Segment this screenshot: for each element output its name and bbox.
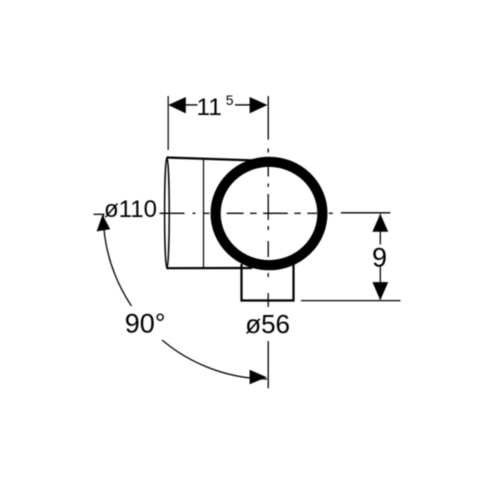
vertical centerline top solid part (11.5 dim extension) (267, 96, 269, 140)
90 degree arc: top arrow (97, 215, 111, 232)
socket mouth rim (flat ellipse) (165, 158, 170, 269)
horizontal centerline stub left of label (94, 213, 105, 215)
90 degree arc (103, 215, 267, 379)
svg-text:ø56: ø56 (245, 309, 290, 339)
label ø56 with white background over centerline (243, 308, 291, 336)
main ring ø110 opening (216, 162, 323, 265)
svg-text:ø110: ø110 (104, 196, 157, 223)
dimension 11.5: left arrow (168, 97, 186, 113)
90 degree arc: white gap for text (122, 306, 169, 340)
dimension 9: vertical line upper (379, 214, 381, 245)
svg-text:5: 5 (226, 92, 234, 108)
socket body top edge (167, 158, 257, 161)
socket body bottom edge (167, 267, 253, 269)
svg-text:11: 11 (197, 94, 222, 121)
socket depth line (203, 158, 205, 267)
horizontal centerline dash-dot (160, 212, 333, 214)
dimension 11.5: left extension line (167, 96, 169, 150)
dimension 11.5: line segment right (235, 104, 251, 106)
vertical centerline bottom solid part (267, 341, 269, 388)
vertical centerline dash-dot (267, 148, 269, 307)
dimension 9: top arrow (372, 214, 388, 232)
90 degree arc: bottom arrow (250, 370, 267, 385)
dimension 9: bottom arrow (372, 282, 388, 300)
horizontal extension line for 9 dim (341, 212, 391, 214)
dimension 9: vertical line lower (379, 267, 381, 300)
svg-text:90°: 90° (125, 309, 166, 339)
svg-text:9: 9 (372, 243, 387, 273)
dimension 9: bottom extension line (301, 300, 400, 302)
dimension 11.5: right arrow (250, 97, 268, 113)
outlet ø56 rectangle (242, 264, 294, 301)
dimension 11.5: line segment left (185, 104, 198, 106)
